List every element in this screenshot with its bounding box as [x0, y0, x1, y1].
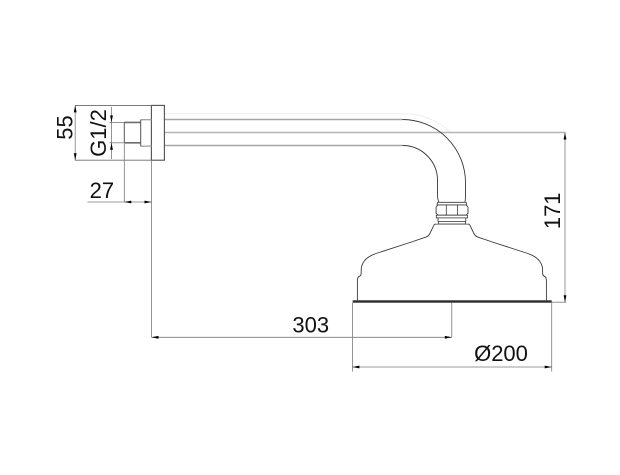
- svg-text:Ø200: Ø200: [474, 341, 528, 366]
- svg-text:G1/2: G1/2: [86, 109, 111, 157]
- svg-text:171: 171: [540, 192, 565, 229]
- svg-text:27: 27: [90, 178, 114, 203]
- svg-text:55: 55: [52, 115, 77, 139]
- svg-text:303: 303: [292, 313, 329, 338]
